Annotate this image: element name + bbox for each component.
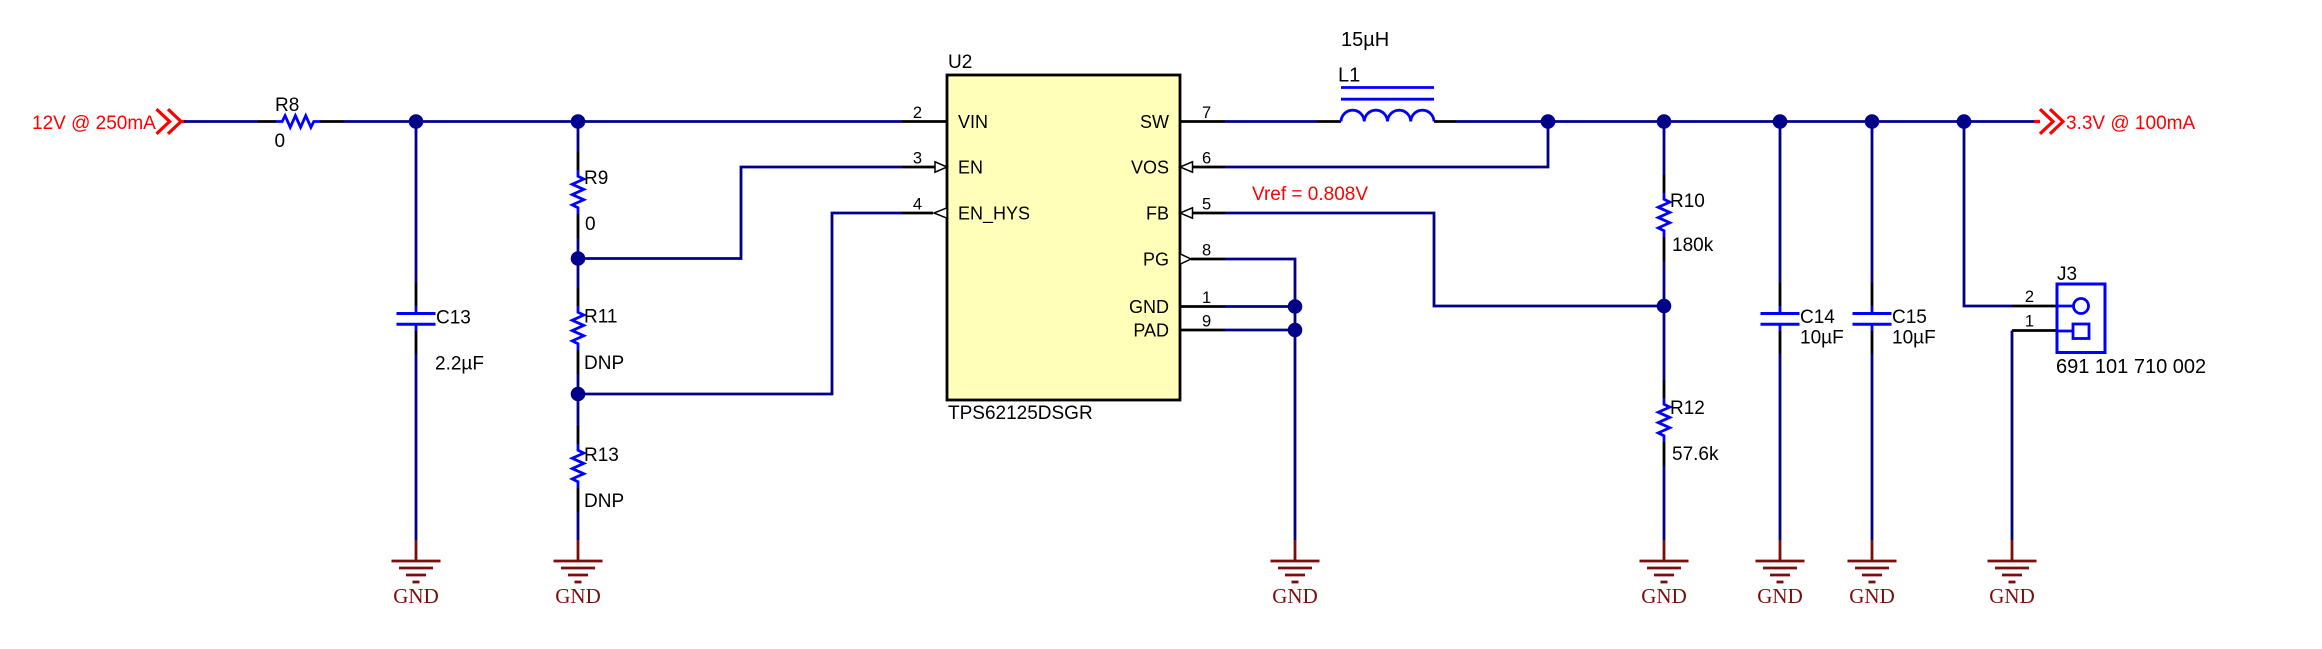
svg-text:DNP: DNP [584,491,624,512]
svg-text:4: 4 [913,196,922,214]
wire output rail [1456,120,2034,123]
capacitor C14 value [1800,328,1844,349]
pin 8 number [1202,242,1211,260]
pin 5 FB arrow [1180,208,1193,218]
pin 4 EN_HYS stub [902,212,933,215]
port P2 3.3V output label [2066,113,2195,134]
svg-text:VOS: VOS [1131,158,1169,178]
junction node EN [571,251,586,266]
op-amp U2 body [947,75,1180,400]
capacitor C14 lead top [1779,283,1782,306]
svg-text:180k: 180k [1672,235,1714,256]
ground GND6 [1848,540,1897,608]
resistor R9 label [584,168,608,189]
svg-text:2: 2 [913,104,922,122]
capacitor C15 lead bottom [1871,331,1874,354]
resistor R10 lead bottom [1663,237,1666,261]
pin 6 VOS arrow [1180,162,1193,172]
pin 2 VIN stub [902,120,947,123]
svg-text:SW: SW [1140,112,1169,132]
svg-text:FB: FB [1146,204,1169,224]
resistor R11 lead top [577,288,580,306]
resistor R9 value 0 [585,214,596,235]
pin GND name [1129,297,1169,317]
pin 8 PG arrow [1180,254,1191,264]
svg-text:691 101 710 002: 691 101 710 002 [2056,356,2206,378]
svg-text:GND: GND [1757,584,1803,608]
svg-text:0: 0 [275,131,286,152]
pin 7 number [1202,104,1211,122]
resistor R12 lead bottom [1663,442,1666,466]
op-amp U2 part number [948,403,1093,424]
svg-text:10µF: 10µF [1892,328,1936,349]
inductor L1 lead left [1317,120,1341,123]
svg-text:R10: R10 [1670,191,1705,212]
ground GND4 [1640,540,1689,608]
junction node R10 top [1657,114,1672,129]
pin VOS name [1131,158,1169,178]
pin 3 EN stub [902,166,935,169]
pin 5 number [1202,196,1211,214]
resistor R8 label [275,95,299,116]
ground GND5 [1756,540,1805,608]
svg-text:6: 6 [1202,150,1211,168]
svg-text:5: 5 [1202,196,1211,214]
pin 5 FB stub [1192,212,1225,215]
connector J3 pin 1 stub [2012,329,2057,332]
svg-text:U2: U2 [948,52,972,73]
pin EN name [958,158,983,178]
wire EN_HYS net [578,213,902,394]
junction node C15 top [1865,114,1880,129]
pin FB name [1146,204,1169,224]
svg-text:GND: GND [393,584,439,608]
pin PG name [1143,250,1169,270]
pin PAD name [1133,321,1169,341]
capacitor C15 label [1892,307,1927,328]
port P1 12V input label [32,113,156,134]
svg-text:GND: GND [1129,297,1169,317]
svg-text:PAD: PAD [1133,321,1169,341]
resistor R10 [1658,193,1670,237]
junction node FB divider [1657,299,1672,314]
pin SW name [1140,112,1169,132]
svg-text:15µH: 15µH [1341,29,1389,51]
wire C14 to ground [1779,354,1782,540]
pin 4 EN_HYS arrow [934,208,947,218]
resistor R13 lead bottom [577,488,580,512]
resistor R11 label [584,307,617,328]
wire R11 top [577,259,580,289]
resistor R13 label [584,445,619,466]
resistor R13 lead top [577,426,580,444]
wire C13 branch upper [415,122,418,284]
wire GND stem U2 [1294,307,1297,541]
wire FB net [1225,213,1664,306]
pin 9 PAD stub [1180,329,1225,332]
resistor R11 lead bottom [577,350,580,374]
resistor R13 value DNP [584,491,624,512]
resistor R9 lead bottom [577,214,580,238]
ground GND3 [1271,540,1320,608]
pin VIN name [958,112,988,132]
wire C13 to ground [415,354,418,540]
svg-text:R9: R9 [584,168,608,189]
wire R13 top [577,394,580,427]
resistor R9 [572,170,584,214]
junction node GND pin [1288,299,1303,314]
svg-text:C13: C13 [436,308,471,329]
connector J3 part number [2056,356,2206,378]
wire PAD pin net [1225,329,1295,332]
resistor R12 [1658,398,1670,442]
capacitor C15 value [1892,328,1936,349]
svg-text:GND: GND [1849,584,1895,608]
port P1 chevron [157,109,187,134]
svg-text:TPS62125DSGR: TPS62125DSGR [948,403,1093,424]
pin 1 number [1202,289,1211,307]
capacitor C14 [1761,306,1800,331]
svg-text:L1: L1 [1338,65,1360,87]
junction node EN_HYS [571,387,586,402]
wire R12 top [1663,306,1666,380]
wire R11 bottom [577,374,580,394]
connector J3 pin 2 stub [2012,305,2057,308]
wire PG net [1225,259,1295,307]
capacitor C13 lead top [415,283,418,306]
pin 3 EN arrow [935,162,947,172]
svg-text:PG: PG [1143,250,1169,270]
inductor L1 lead right [1434,120,1456,123]
wire GND pin net [1225,305,1295,308]
pin 6 VOS stub [1192,166,1225,169]
resistor R13 [572,444,584,488]
svg-text:GND: GND [1272,584,1318,608]
junction node VOS tap [1541,114,1556,129]
svg-text:3: 3 [913,150,922,168]
svg-text:1: 1 [1202,289,1211,307]
port P2 chevron [2034,109,2063,134]
svg-text:2: 2 [2025,288,2034,306]
resistor R10 label [1670,191,1705,212]
svg-text:10µF: 10µF [1800,328,1844,349]
pin 8 PG stub [1191,258,1225,261]
resistor R12 value [1672,444,1719,465]
resistor R12 label [1670,398,1705,419]
wire EN net [578,167,902,259]
capacitor C13 value [435,354,484,375]
junction node C13 top [409,114,424,129]
svg-text:DNP: DNP [584,353,624,374]
resistor R11 value DNP [584,353,624,374]
resistor R11 [572,306,584,350]
wire C15 to ground [1871,354,1874,540]
resistor R10 value [1672,235,1714,256]
svg-text:7: 7 [1202,104,1211,122]
capacitor C13 [397,306,436,331]
pin 1 GND stub [1180,305,1225,308]
capacitor C13 lead bottom [415,331,418,354]
resistor R10 lead top [1663,175,1666,193]
connector J3 body [2057,284,2105,353]
resistor R12 lead top [1663,380,1666,398]
svg-text:1: 1 [2025,313,2034,331]
svg-text:57.6k: 57.6k [1672,444,1719,465]
svg-text:0: 0 [585,214,596,235]
op-amp U2 designator [948,52,972,73]
pin 7 SW stub [1180,120,1225,123]
pin EN_HYS name [958,204,1030,225]
connector J3 pin 1 number [2025,313,2034,331]
pin 2 number [913,104,922,122]
junction node J3 tap [1957,114,1972,129]
svg-text:GND: GND [1989,584,2035,608]
svg-text:J3: J3 [2057,264,2077,285]
wire input rail left [184,120,258,123]
svg-text:C15: C15 [1892,307,1927,328]
svg-text:GND: GND [555,584,601,608]
wire R13 to ground [577,512,580,540]
svg-text:8: 8 [1202,242,1211,260]
wire input rail to VIN [344,120,902,123]
pin 4 number [913,196,922,214]
capacitor C15 lead top [1871,283,1874,306]
junction node R9 top [571,114,586,129]
resistor R8 [276,116,320,128]
svg-text:GND: GND [1641,584,1687,608]
svg-text:EN_HYS: EN_HYS [958,204,1030,225]
capacitor C13 label [436,308,471,329]
wire VOS net [1225,122,1548,168]
svg-text:C14: C14 [1800,307,1835,328]
resistor R9 lead top [577,152,580,170]
resistor R8 value 0 [275,131,286,152]
wire R9 bottom [577,238,580,259]
wire R12 to ground [1663,466,1666,540]
inductor L1 label [1338,65,1360,87]
connector J3 designator [2057,264,2077,285]
inductor L1 [1341,88,1434,122]
wire R10 bottom [1663,261,1666,306]
inductor L1 value [1341,29,1389,51]
svg-text:Vref = 0.808V: Vref = 0.808V [1252,184,1368,205]
capacitor C15 [1853,306,1892,331]
ground GND2 [554,540,603,608]
pin 9 number [1202,313,1211,331]
ground GND1 [392,540,441,608]
svg-text:12V @ 250mA: 12V @ 250mA [32,113,156,134]
pin 3 number [913,150,922,168]
wire R10 top [1663,122,1666,176]
capacitor C14 lead bottom [1779,331,1782,354]
svg-text:R11: R11 [584,307,617,328]
svg-text:EN: EN [958,158,983,178]
svg-text:R13: R13 [584,445,619,466]
wire C14 branch upper [1779,122,1782,284]
wire J3 pin1 to ground [2011,331,2014,541]
net label Vref [1252,184,1368,205]
svg-text:2.2µF: 2.2µF [435,354,484,375]
wire SW to L1 [1225,120,1317,123]
junction node C14 top [1773,114,1788,129]
resistor R8 lead left [258,120,276,123]
svg-text:R12: R12 [1670,398,1705,419]
pin 6 number [1202,150,1211,168]
wire C15 branch upper [1871,122,1874,284]
svg-text:3.3V @ 100mA: 3.3V @ 100mA [2066,113,2195,134]
wire J3 branch [1964,122,2012,307]
capacitor C14 label [1800,307,1835,328]
junction node PAD pin [1288,323,1303,338]
wire R9 top [577,122,580,153]
svg-text:R8: R8 [275,95,299,116]
connector J3 pin 2 number [2025,288,2034,306]
svg-text:VIN: VIN [958,112,988,132]
ground GND7 [1988,540,2037,608]
resistor R8 lead right [320,120,344,123]
svg-text:9: 9 [1202,313,1211,331]
